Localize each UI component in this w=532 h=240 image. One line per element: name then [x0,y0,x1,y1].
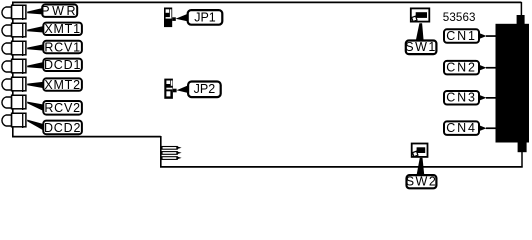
LED D1 body [12,5,26,19]
label CN2 [444,61,479,75]
callout pointer for DCD1 [27,62,45,69]
label DCD1 [43,58,82,72]
LED D4 flange divider [22,59,24,74]
svg-text:SW1: SW1 [405,40,437,54]
label RCV1 [43,40,82,54]
card edge tab 1 [162,146,182,149]
callout pointer for RCV1 [27,44,45,51]
label SW2 [406,175,438,189]
svg-text:RCV2: RCV2 [44,101,81,115]
wire: pointer line to connector CN1 [486,35,496,37]
card edge tab 3 [162,156,182,159]
LED D3 body [12,41,26,55]
LED D6 body [12,95,26,109]
connector block bottom stub [518,142,527,152]
LED D3 flange divider [22,41,24,56]
label CN1 [444,29,479,43]
label DCD2 [43,121,82,135]
label RCV2 [43,101,82,115]
svg-text:CN3: CN3 [446,91,476,105]
svg-text:CN4: CN4 [446,121,476,135]
callout pointer for CN4 [478,125,487,132]
label JP1 [188,10,223,25]
callout pointer for SW1 [416,23,424,40]
svg-text:XMT2: XMT2 [44,78,81,92]
LED D5 body [12,77,26,91]
jumper JP2 block [164,79,173,99]
LED D7 body [12,113,26,127]
wire: board right edge upper segment [520,2,522,17]
wire: board step vertical [160,136,162,167]
label XMT1 [43,22,82,36]
wire: JP2 pointer stub [173,89,177,93]
LED D2 lens [2,25,12,36]
svg-text:DCD2: DCD2 [44,121,81,135]
svg-text:XMT1: XMT1 [44,22,81,36]
svg-text:JP1: JP1 [194,10,216,24]
callout pointer for JP2 [177,85,190,93]
switch SW2 body [412,144,428,157]
wire: JP1 pointer stub [172,17,176,21]
callout pointer for CN1 [478,32,487,39]
svg-text:JP2: JP2 [194,82,216,96]
connector block top stub [517,15,525,25]
callout pointer for CN2 [478,64,487,71]
wire: pointer line to connector CN3 [486,97,496,99]
wire: board right edge lower segment [521,152,523,168]
svg-text:DCD1: DCD1 [44,58,81,72]
LED D2 body [12,23,26,37]
callout pointer for RCV2 [27,102,45,112]
callout pointer for SW2 [417,158,425,176]
LED D3 lens [2,43,12,54]
LED D6 flange divider [22,95,24,110]
label PWR [41,4,78,18]
wire: board bottom edge [160,166,523,168]
svg-text:CN1: CN1 [446,29,476,43]
connector block (rear panel connectors CN1-CN4) [496,24,530,143]
label CN4 [444,121,479,135]
svg-text:CN2: CN2 [446,61,476,75]
LED D7 flange divider [22,113,24,128]
LED D5 flange divider [22,77,24,92]
LED D4 lens [2,61,12,72]
wire: board top edge [12,1,521,3]
callout pointer for DCD2 [27,120,45,132]
card edge tab 2 [162,151,182,154]
label SW1 [405,40,437,54]
LED D1 lens [2,7,12,18]
label JP2 [188,82,221,98]
svg-text:53563: 53563 [443,11,476,24]
label XMT2 [43,78,82,92]
callout pointer for XMT1 [27,26,45,33]
switch SW1 body [411,8,430,21]
wire: pointer line to connector CN2 [486,67,496,69]
LED D5 lens [2,79,12,90]
wire: board left edge [12,2,14,137]
wire: board bottom-left step horizontal [12,136,161,138]
svg-text:PWR: PWR [41,4,78,18]
jumper JP1 block [164,8,172,28]
callout pointer for CN3 [478,94,487,101]
LED D2 flange divider [22,23,24,38]
label CN3 [444,91,479,105]
LED D7 lens [2,115,12,126]
wire: pointer line to connector CN4 [486,127,496,129]
LED D1 flange divider [22,5,24,20]
LED D6 lens [2,97,12,108]
svg-text:SW2: SW2 [406,175,438,189]
callout pointer for XMT2 [27,82,45,89]
LED D4 body [12,59,26,73]
callout pointer for PWR [27,8,44,15]
callout pointer for JP1 [176,13,189,21]
svg-text:RCV1: RCV1 [44,40,81,54]
